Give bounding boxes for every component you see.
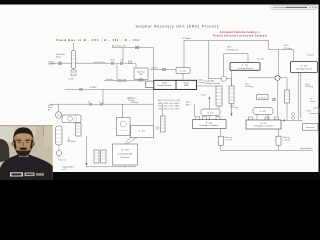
sideburns xyxy=(13,140,16,150)
svg-text:B/D 1: B/D 1 xyxy=(186,102,190,104)
junction cluster with valves xyxy=(110,61,136,64)
svg-text:5 - 10 m/L: 5 - 10 m/L xyxy=(283,139,291,141)
svg-text:E - 202: E - 202 xyxy=(260,123,266,125)
drum pill E-202 xyxy=(253,108,273,115)
label: BFW xyxy=(90,87,97,89)
wire: drops to burner and KOD xyxy=(117,63,136,80)
catalyst red annotation xyxy=(213,31,268,37)
svg-text:Activated Alumina Catalyst +: Activated Alumina Catalyst + xyxy=(220,31,261,34)
svg-text:E-101: E-101 xyxy=(184,83,189,85)
wire: air line xyxy=(112,48,153,80)
label: FV 101 xyxy=(110,60,115,62)
label: 162C xyxy=(230,105,238,109)
label: air from K-101 xyxy=(112,45,127,48)
wire: furnace to riser xyxy=(197,86,220,120)
acid gas KOD box xyxy=(134,68,148,79)
moustache xyxy=(20,148,27,150)
ears xyxy=(12,142,15,147)
blower K-101 circle xyxy=(55,112,61,118)
blower box K-102 xyxy=(117,118,131,136)
bottom black bar xyxy=(0,172,320,180)
label: E-201 A/B reheater xyxy=(205,80,221,85)
label: H-101 xyxy=(180,71,186,73)
svg-text:Comb: Comb xyxy=(48,107,53,109)
feed gas red label xyxy=(57,38,140,42)
wire: pill to condenser 2 xyxy=(257,115,268,121)
reactor R-301 xyxy=(291,62,318,73)
svg-text:KOD: KOD xyxy=(139,74,144,76)
mixer circle xyxy=(275,75,280,80)
svg-text:E - 202: E - 202 xyxy=(260,111,266,113)
slide background xyxy=(0,5,319,173)
svg-text:(Claus): (Claus) xyxy=(308,55,314,57)
svg-text:H - 103: H - 103 xyxy=(121,150,129,152)
vessel V-101 feed gas KOD xyxy=(72,51,76,69)
wire: preheater connections xyxy=(125,138,138,167)
label: E-103 xyxy=(139,131,145,133)
label: E-102 xyxy=(208,112,214,114)
wire: main burner feed line xyxy=(104,79,146,82)
svg-text:162 C: 162 C xyxy=(230,105,236,107)
svg-text:5 - 10 m/L: 5 - 10 m/L xyxy=(225,139,233,141)
svg-text:1050 C: 1050 C xyxy=(198,80,204,82)
label: incinerator xyxy=(306,126,315,129)
right column instruments xyxy=(292,113,295,116)
svg-text:Feed Gas to B - 101 ; H - 101: Feed Gas to B - 101 ; H - 101 ; N - 101 xyxy=(57,38,140,42)
svg-text:1.05 Kg: 1.05 Kg xyxy=(128,100,134,102)
vessel E-302 riser xyxy=(285,90,290,103)
svg-text:E - 102: E - 102 xyxy=(206,123,212,125)
label box incinerator xyxy=(303,124,319,131)
arrow: sulphur vapour xyxy=(208,96,210,99)
head xyxy=(13,128,33,155)
webcam overlay xyxy=(0,125,53,180)
svg-text:140 C: 140 C xyxy=(305,84,311,86)
label: feed gas KOD xyxy=(56,54,65,59)
svg-text:Titania (dioxide) promoted Cat: Titania (dioxide) promoted Catalyst xyxy=(213,34,268,37)
label: S Vap xyxy=(201,94,206,96)
label: to CBD xyxy=(68,78,74,81)
label 140C xyxy=(305,84,313,88)
svg-text:2H2S + SO2 = 3S + 2H2O: 2H2S + SO2 = 3S + 2H2O xyxy=(158,103,180,105)
label: sat steam 2 lines xyxy=(127,97,138,104)
label: 8 inch xyxy=(88,101,90,103)
person shirt xyxy=(0,149,53,180)
condenser 1 stubs xyxy=(196,117,221,120)
wire: right loop xyxy=(282,108,320,120)
wire: liquid sulphur header xyxy=(221,149,313,151)
svg-text:B-101: B-101 xyxy=(162,83,167,85)
label: E-202 xyxy=(260,111,266,113)
trap under V-101 xyxy=(71,70,76,76)
label liquid sulphur bottom left xyxy=(62,166,74,172)
label H-201 xyxy=(258,59,264,61)
label: 6.0 Kte/g xyxy=(128,97,135,103)
svg-text:0.67 Kg g: 0.67 Kg g xyxy=(230,107,238,109)
heater H-101 xyxy=(176,68,190,74)
svg-text:Seal Leg: Seal Leg xyxy=(225,137,232,139)
label: liquid sulphur xyxy=(300,147,312,150)
hair xyxy=(13,127,33,142)
svg-text:H - 101: H - 101 xyxy=(180,71,186,73)
label: 2nd sulphur condenser xyxy=(254,123,274,128)
eyebrows xyxy=(17,139,30,141)
furnace B-101 / WHB E-101 xyxy=(154,80,197,89)
svg-text:CH4 + 2O2 = CO2 + 2H2O: CH4 + 2O2 = CO2 + 2H2O xyxy=(158,106,180,108)
label: LP steam xyxy=(182,37,191,40)
reheater circle E-201 xyxy=(221,76,226,81)
pump circle under vessel xyxy=(56,150,61,155)
label 327C xyxy=(245,84,253,88)
condenser 1 box xyxy=(193,120,227,129)
svg-text:Feed Gas: Feed Gas xyxy=(56,54,65,56)
wire: down line with arrow mid-left xyxy=(87,136,137,167)
svg-text:146 C: 146 C xyxy=(284,45,290,47)
vertical vessel x78 xyxy=(76,123,82,136)
svg-text:Seal Leg: Seal Leg xyxy=(283,137,290,139)
preheater H-103 box xyxy=(113,144,138,165)
wire: BFW line xyxy=(65,88,154,137)
seal leg 2 xyxy=(276,136,281,145)
wire: process line y106 xyxy=(50,103,195,116)
svg-text:B/D 2: B/D 2 xyxy=(186,104,190,106)
svg-text:K-101: K-101 xyxy=(48,105,53,107)
wire: feed gas line xyxy=(50,43,110,71)
top black bar xyxy=(0,0,320,5)
svg-text:0.83 Kg/cm g: 0.83 Kg/cm g xyxy=(227,50,238,52)
wall corner line xyxy=(43,126,45,137)
svg-text:327 C: 327 C xyxy=(245,84,251,86)
valve near LP steam box xyxy=(272,98,276,100)
svg-text:R - 201: R - 201 xyxy=(242,65,249,67)
valve on air line xyxy=(135,46,139,48)
label: 146C xyxy=(284,45,292,50)
label: acid gas mix xyxy=(94,61,105,64)
seal leg 1 xyxy=(218,136,223,145)
wire: R-301 outlet xyxy=(298,73,301,121)
label: 240C xyxy=(227,46,238,51)
label: 6 inch xyxy=(99,101,101,103)
label: 1st sulphur condenser xyxy=(199,123,219,128)
wire: KOD outlet xyxy=(140,79,142,81)
label: B-101 reaction furnace xyxy=(158,83,172,87)
label: off gas xyxy=(48,61,55,65)
svg-text:4" BFW: 4" BFW xyxy=(90,87,97,89)
wire: E-202 vessel outlet xyxy=(231,104,233,117)
svg-text:R - 301: R - 301 xyxy=(301,66,308,68)
svg-text:Off Gas: Off Gas xyxy=(48,61,54,63)
label right of furnace xyxy=(198,80,204,84)
svg-text:S Vap: S Vap xyxy=(201,94,206,96)
svg-text:E - 103: E - 103 xyxy=(139,131,145,133)
tall vessel left V-102 xyxy=(56,126,62,145)
title text xyxy=(136,25,220,29)
exchanger package box xyxy=(62,115,81,123)
svg-text:240 C: 240 C xyxy=(227,46,233,48)
label: K-101 xyxy=(48,105,53,111)
label: R-301 xyxy=(296,66,313,71)
right black strip xyxy=(319,0,320,180)
valve on feed line xyxy=(58,62,62,64)
label LP steam right xyxy=(310,99,316,103)
svg-text:E - 102: E - 102 xyxy=(208,112,214,114)
reaction equations text xyxy=(158,100,181,110)
wire: R-301 inlet loop xyxy=(279,50,294,75)
label: acid gas KOD xyxy=(137,71,145,77)
top right toolbar pill xyxy=(270,5,317,9)
condenser 2 box xyxy=(246,120,281,129)
label: E-101 WHB xyxy=(184,83,189,87)
LP steam line to H-101 xyxy=(150,41,184,80)
label LP steam small xyxy=(68,140,77,143)
chair xyxy=(0,139,10,162)
svg-text:COS + H2O = CO2 + H2S: COS + H2O = CO2 + H2S xyxy=(158,108,180,110)
condenser 2 stubs xyxy=(249,117,279,120)
twin filter rects xyxy=(94,150,99,163)
drum pill E-102 xyxy=(201,109,220,116)
nose xyxy=(22,142,24,147)
wire: LP steam header xyxy=(184,41,279,79)
svg-text:Sulphur Recovery Unit (SRU) Pr: Sulphur Recovery Unit (SRU) Process xyxy=(136,25,220,29)
vessel E-102 riser xyxy=(216,86,222,106)
svg-text:H - 201: H - 201 xyxy=(258,59,264,61)
eyes xyxy=(18,141,29,143)
label: TI 301 xyxy=(306,111,311,113)
label: R-201 xyxy=(237,65,253,70)
reactor R-201 xyxy=(230,63,260,71)
vertical vessel label xyxy=(67,137,69,141)
forehead highlight xyxy=(17,131,30,141)
label: LP stm xyxy=(151,67,158,70)
svg-text:KOD: KOD xyxy=(56,57,61,59)
wire: mixer connections xyxy=(248,78,287,116)
label: PV xyxy=(121,60,124,62)
vessel E-202 xyxy=(229,86,234,104)
svg-text:H2S + 3/2 O2 = SO2 + H2O: H2S + 3/2 O2 = SO2 + H2O xyxy=(158,100,181,102)
vessel E-104 xyxy=(161,116,166,132)
beard xyxy=(15,147,32,157)
svg-text:TI 301: TI 301 xyxy=(306,111,311,113)
svg-text:0.78 Kg g: 0.78 Kg g xyxy=(284,48,292,50)
neck xyxy=(19,147,29,157)
shirt logo xyxy=(10,172,23,176)
svg-text:0.58 Kg g: 0.58 Kg g xyxy=(305,86,313,88)
label: main burner xyxy=(107,78,114,81)
webcam wall xyxy=(0,125,53,180)
box E-103 xyxy=(131,126,154,138)
wire: R-201 outlet xyxy=(231,70,233,86)
burner box xyxy=(146,81,154,88)
svg-text:0.63 Kg g: 0.63 Kg g xyxy=(245,86,253,88)
wire: R-201 inlet loop xyxy=(224,54,248,63)
label: claus red xyxy=(308,55,314,57)
LP steam box mid xyxy=(257,95,268,100)
label: B/D xyxy=(186,102,190,106)
